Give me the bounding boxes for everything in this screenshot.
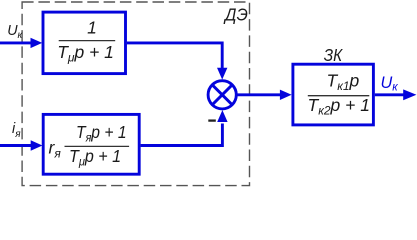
svg-text:1: 1: [87, 18, 97, 38]
svg-text:ДЭ: ДЭ: [223, 5, 248, 25]
svg-text:ЗК: ЗК: [324, 45, 343, 65]
svg-text:Uк: Uк: [7, 23, 23, 41]
svg-text:iя: iя: [12, 121, 21, 140]
svg-text:Tк2p + 1: Tк2p + 1: [308, 95, 370, 118]
svg-text:Tμp + 1: Tμp + 1: [57, 42, 114, 64]
svg-text:Tяp + 1: Tяp + 1: [76, 122, 127, 144]
svg-text:Tμp + 1: Tμp + 1: [69, 146, 121, 168]
svg-text:Uк: Uк: [381, 74, 399, 94]
